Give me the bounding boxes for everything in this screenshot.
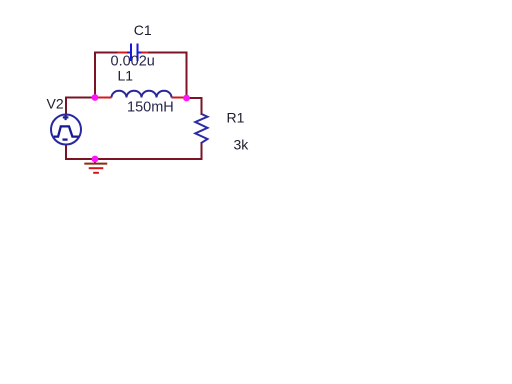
svg-text:L1: L1: [118, 68, 134, 84]
svg-text:R1: R1: [227, 110, 245, 126]
svg-text:C1: C1: [134, 22, 152, 38]
svg-text:0.002u: 0.002u: [111, 54, 155, 70]
svg-text:V2: V2: [47, 96, 64, 112]
svg-text:3k: 3k: [234, 137, 250, 153]
svg-text:150mH: 150mH: [127, 100, 174, 116]
